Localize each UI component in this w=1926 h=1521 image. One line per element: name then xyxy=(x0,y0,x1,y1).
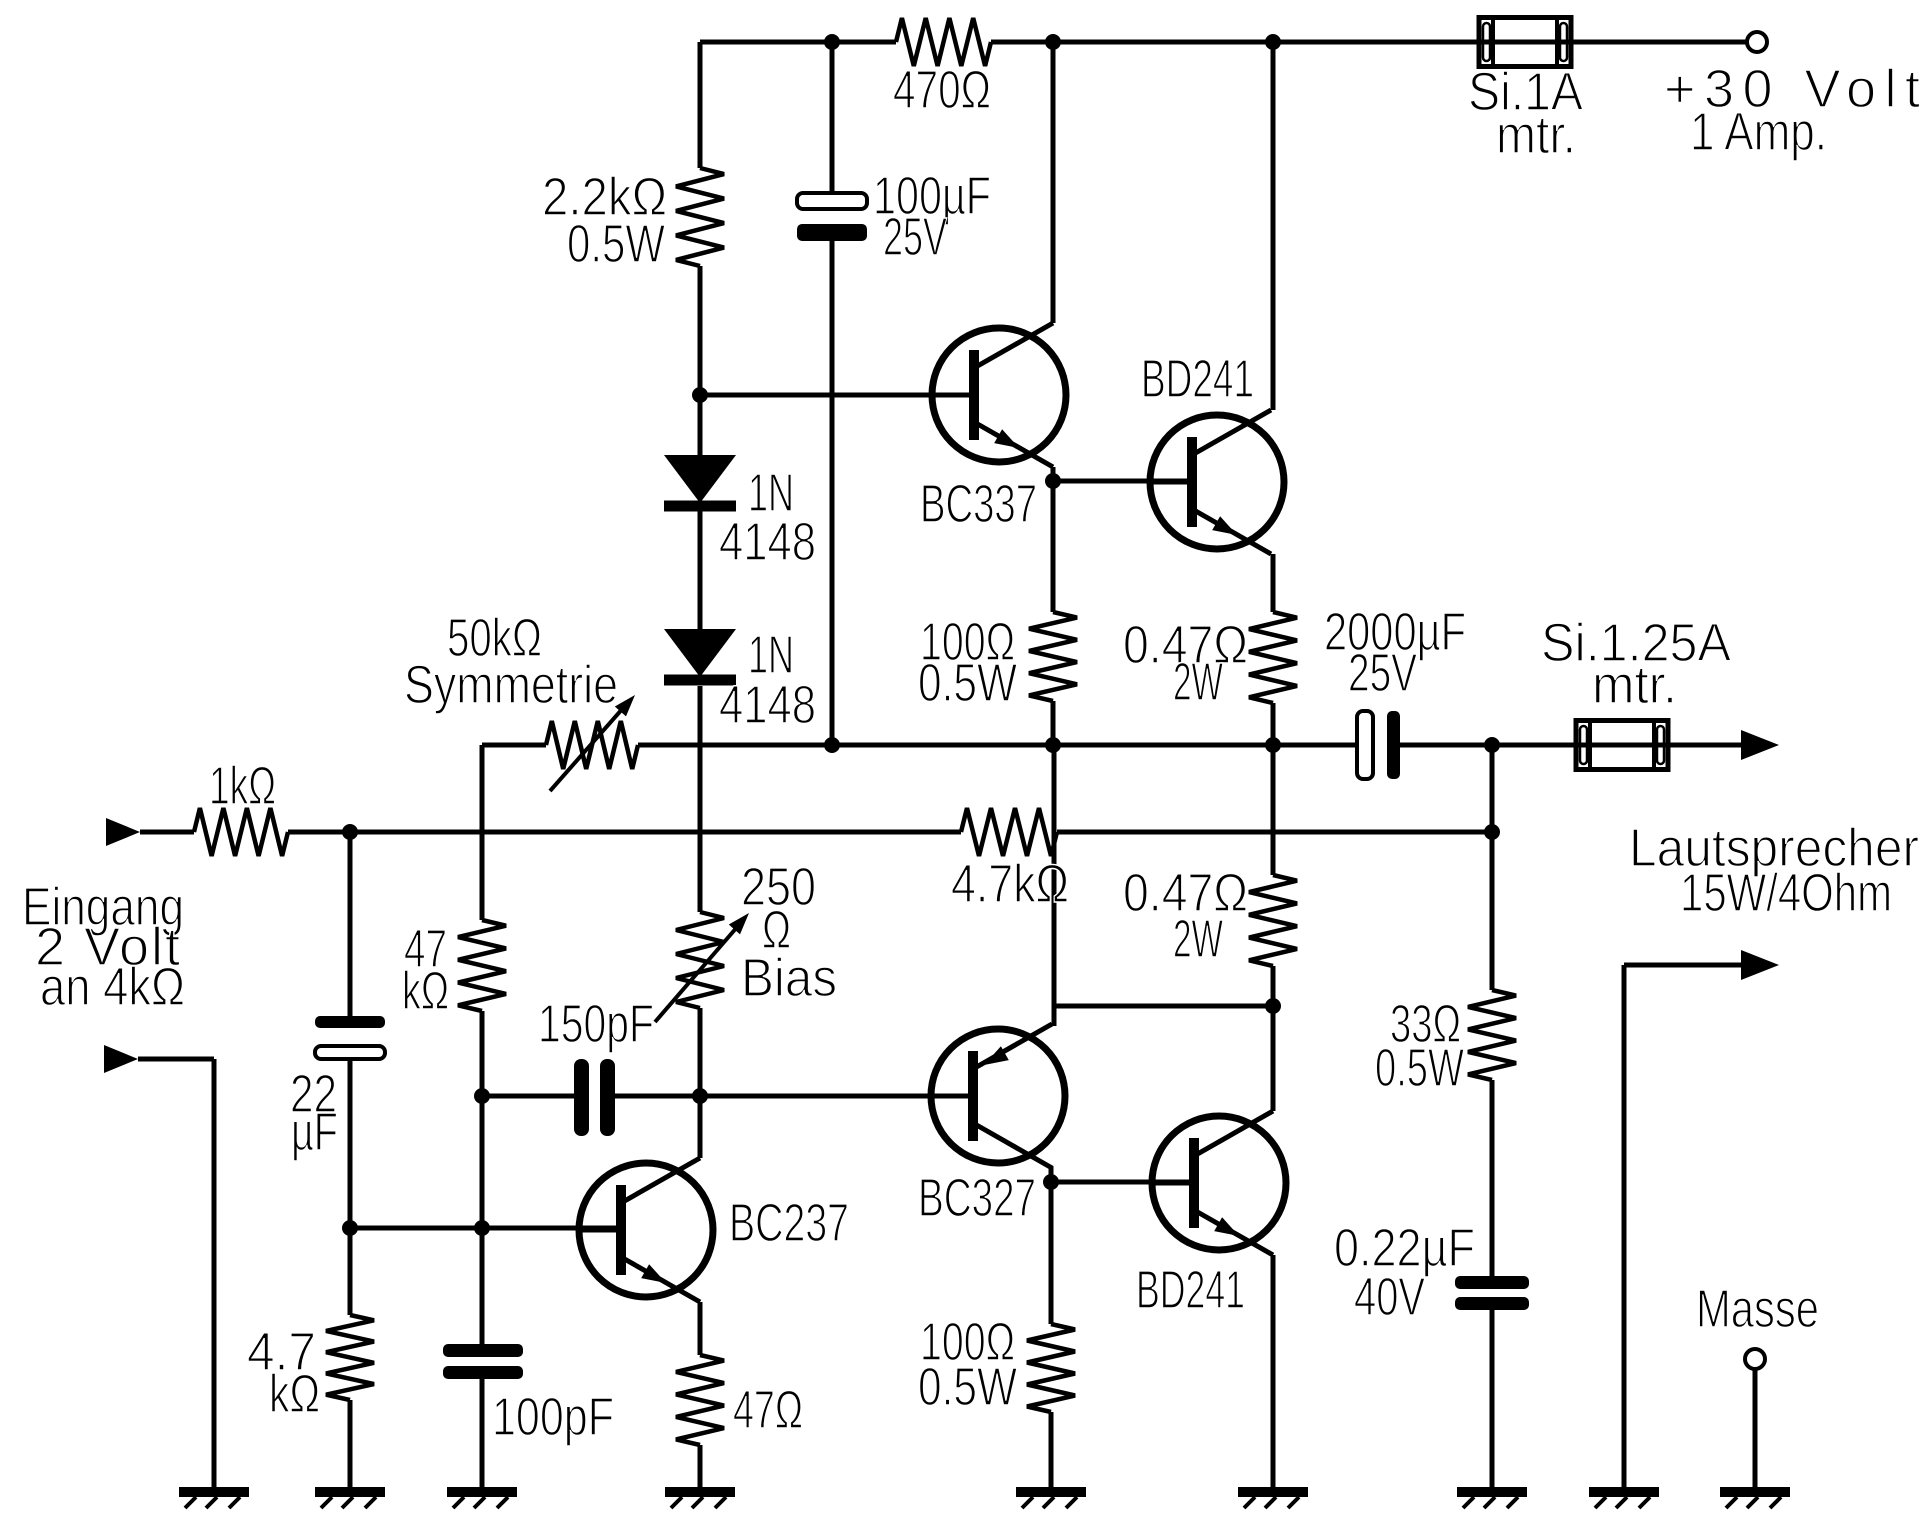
resistor 0.47R 2W top xyxy=(1249,612,1297,703)
junction xyxy=(824,737,840,753)
wire R47 to ground xyxy=(698,1445,703,1492)
svg-text:470Ω: 470Ω xyxy=(893,60,991,120)
wire fuse to output arrow xyxy=(1668,743,1743,748)
junction xyxy=(824,34,840,50)
svg-text:100pF: 100pF xyxy=(492,1387,614,1447)
capacitor 22uF xyxy=(315,1016,385,1059)
ground speaker xyxy=(1589,1492,1659,1508)
svg-text:1 Amp.: 1 Amp. xyxy=(1690,102,1827,162)
transistor BD241 bottom xyxy=(1152,1111,1286,1255)
wire speaker return to ground xyxy=(1622,965,1627,1492)
junction xyxy=(474,1088,490,1104)
transistor BC337 xyxy=(932,323,1066,467)
wire D2 down to bias pot xyxy=(698,686,703,912)
wire C100uF to mid rail xyxy=(830,241,835,745)
wire BC237 base xyxy=(350,1226,621,1231)
transistor BD241 top xyxy=(1150,410,1284,554)
wire BC327 collector to R 100b xyxy=(1049,1166,1054,1324)
wire Masse terminal to ground xyxy=(1753,1369,1758,1492)
wire R2.2k to diode D1 xyxy=(698,266,703,455)
wire C2000uF to fuse Si.1.25A xyxy=(1400,743,1576,748)
wire rail to C 100uF xyxy=(830,42,835,193)
wire pot 50k to C 2000uF xyxy=(638,743,1357,748)
svg-text:BC327: BC327 xyxy=(918,1168,1036,1228)
svg-text:mtr.: mtr. xyxy=(1496,105,1576,165)
resistor 2.2k 0.5W xyxy=(676,168,724,266)
capacitor 0.22uF 40V xyxy=(1455,1276,1529,1310)
potentiometer 250R Bias xyxy=(655,912,749,1022)
svg-text:0.5W: 0.5W xyxy=(567,214,665,274)
capacitor 100uF 25V xyxy=(797,193,867,241)
wire rail corner down to R 2.2k xyxy=(698,42,703,168)
wire C150pF to bias node xyxy=(614,1094,700,1099)
wire R47k down to C 100pF xyxy=(480,1011,485,1344)
junction xyxy=(342,1220,358,1236)
junction xyxy=(474,1220,490,1236)
arrow input xyxy=(106,818,140,846)
junction xyxy=(692,1088,708,1104)
junction xyxy=(342,824,358,840)
wire rail to BD241a collector xyxy=(1271,42,1276,410)
svg-text:1kΩ: 1kΩ xyxy=(209,756,276,816)
transistor BC327 xyxy=(931,1024,1065,1168)
svg-text:BD241: BD241 xyxy=(1136,1260,1245,1320)
svg-text:40V: 40V xyxy=(1354,1267,1425,1327)
capacitor 2000uF 25V xyxy=(1357,711,1400,779)
svg-text:0.5W: 0.5W xyxy=(918,1357,1017,1417)
ground R47 xyxy=(665,1492,735,1508)
wire input return to ground xyxy=(212,1059,217,1492)
svg-text:mtr.: mtr. xyxy=(1592,655,1677,715)
wire C0.22uF to ground xyxy=(1490,1310,1495,1492)
wire BC327 base xyxy=(700,1094,973,1099)
junction xyxy=(1484,824,1500,840)
diode D1 1N4148 xyxy=(664,455,736,506)
svg-text:47Ω: 47Ω xyxy=(733,1380,803,1440)
wire R100b to ground xyxy=(1049,1412,1054,1492)
diode D2 1N4148 xyxy=(664,629,736,680)
resistor 4.7k feedback xyxy=(961,808,1057,856)
wire rail to BC337 collector xyxy=(1051,42,1056,323)
junction xyxy=(1043,1174,1059,1190)
wire C22uF to R 4.7k base divider xyxy=(348,1059,353,1315)
capacitor 100pF xyxy=(443,1344,523,1379)
wire BC237 emitter to R 47 xyxy=(698,1302,703,1355)
svg-text:BC237: BC237 xyxy=(729,1193,849,1253)
wire R4.7k to output node xyxy=(1057,830,1492,835)
arrow speaker xyxy=(1741,950,1779,980)
junction xyxy=(1045,34,1061,50)
capacitor 150pF xyxy=(574,1059,615,1136)
svg-text:µF: µF xyxy=(291,1102,338,1162)
svg-text:kΩ: kΩ xyxy=(402,961,449,1021)
ground C100pF xyxy=(447,1492,517,1508)
wire speaker return xyxy=(1624,963,1743,968)
wire BD241a emitter to R 0.47a xyxy=(1271,554,1276,612)
svg-text:kΩ: kΩ xyxy=(269,1364,320,1424)
wire pot 50k left to R 47k xyxy=(480,745,485,920)
resistor 100R 0.5W top xyxy=(1029,612,1077,701)
junction xyxy=(1265,34,1281,50)
svg-text:Symmetrie: Symmetrie xyxy=(404,655,618,715)
junction xyxy=(1265,998,1281,1014)
ground R4.7k xyxy=(315,1492,385,1508)
wire BC327 emitter node to BD241b collector node xyxy=(1054,1004,1273,1009)
potentiometer 50k Symmetrie xyxy=(546,695,638,791)
svg-text:15W/4Ohm: 15W/4Ohm xyxy=(1680,863,1892,923)
resistor 33R 0.5W xyxy=(1468,990,1516,1080)
wire +30V rail middle xyxy=(991,40,1479,45)
arrow input return xyxy=(104,1045,138,1073)
wire R4.7k to ground xyxy=(348,1400,353,1492)
wire BD241b emitter to ground xyxy=(1271,1255,1276,1492)
wire output node to R 33 xyxy=(1490,745,1495,990)
fuse Si.1A xyxy=(1479,18,1571,67)
wire R33 to C 0.22uF xyxy=(1490,1080,1495,1276)
svg-text:2W: 2W xyxy=(1173,909,1223,969)
resistor 4.7k input xyxy=(326,1315,374,1400)
wire R100a to mid rail xyxy=(1051,701,1056,745)
junction xyxy=(1265,737,1281,753)
ground C0.22uF xyxy=(1457,1492,1527,1508)
wire BC327 emitter bend xyxy=(1052,1003,1057,1026)
resistor 1k xyxy=(194,808,288,856)
wire BD241a base xyxy=(1053,479,1192,484)
junction xyxy=(1045,737,1061,753)
ground R100b xyxy=(1016,1492,1086,1508)
svg-text:0.5W: 0.5W xyxy=(918,653,1017,713)
wire input return arrow xyxy=(138,1057,214,1062)
resistor 100R 0.5W bottom xyxy=(1027,1324,1075,1412)
resistor 47R xyxy=(676,1355,724,1445)
wire mid rail to R 0.47b xyxy=(1271,745,1276,875)
wire R0.47a to mid rail xyxy=(1271,703,1276,745)
wire R0.47b to node xyxy=(1271,966,1276,1006)
terminal +30V xyxy=(1747,32,1767,52)
wire input arrow to R 1k xyxy=(140,830,194,835)
wire R1k to R 4.7k feedback xyxy=(288,830,961,835)
fuse Si.1.25A xyxy=(1576,721,1668,770)
junction xyxy=(692,387,708,403)
wire BC337 base xyxy=(700,393,974,398)
svg-text:25V: 25V xyxy=(1348,643,1417,703)
arrow output xyxy=(1741,730,1779,760)
wire C100pF to ground xyxy=(480,1379,485,1492)
junction xyxy=(1484,737,1500,753)
ground input xyxy=(179,1492,249,1508)
resistor 47k xyxy=(458,920,506,1011)
svg-text:4.7kΩ: 4.7kΩ xyxy=(951,854,1069,914)
svg-text:150pF: 150pF xyxy=(538,994,654,1054)
ground Masse xyxy=(1720,1492,1790,1508)
svg-text:4148: 4148 xyxy=(719,675,816,735)
junction xyxy=(1045,473,1061,489)
resistor 0.47R 2W bottom xyxy=(1249,875,1297,966)
wire mid rail to pot 50k xyxy=(482,743,546,748)
svg-text:an 4kΩ: an 4kΩ xyxy=(40,957,185,1017)
resistor 470R xyxy=(896,18,991,66)
wire +30V rail to terminal xyxy=(1571,40,1747,45)
transistor BC237 xyxy=(579,1158,713,1302)
wire BD241b base xyxy=(1051,1180,1194,1185)
svg-text:2W: 2W xyxy=(1173,652,1223,712)
wire mid rail to BC327 emitter xyxy=(1052,745,1057,1026)
svg-text:BD241: BD241 xyxy=(1141,349,1254,409)
svg-text:0.5W: 0.5W xyxy=(1375,1038,1464,1098)
wire bias pot to BC237 collector xyxy=(698,1008,703,1158)
wire node to BD241b collector xyxy=(1271,1006,1276,1111)
wire D1 to D2 xyxy=(698,511,703,629)
ground BD241b xyxy=(1238,1492,1308,1508)
svg-text:Bias: Bias xyxy=(741,948,837,1008)
wire node to C 150pF xyxy=(482,1094,574,1099)
svg-text:4148: 4148 xyxy=(719,512,816,572)
wire +30V rail left xyxy=(700,40,896,45)
wire BC337 emitter to R 100a xyxy=(1051,467,1056,612)
wire input node to C 22uF xyxy=(348,832,353,1016)
svg-text:25V: 25V xyxy=(883,207,947,267)
terminal Masse xyxy=(1745,1349,1765,1369)
svg-text:Masse: Masse xyxy=(1696,1279,1819,1339)
svg-text:BC337: BC337 xyxy=(920,474,1037,534)
